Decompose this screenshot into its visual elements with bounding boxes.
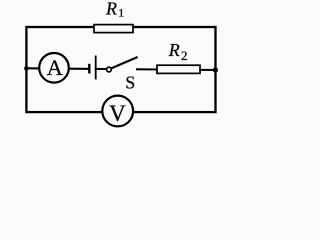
svg-text:2: 2 (181, 48, 188, 63)
svg-text:R: R (105, 0, 117, 19)
svg-text:S: S (125, 73, 135, 93)
svg-text:A: A (47, 55, 64, 80)
svg-text:V: V (109, 101, 126, 126)
svg-text:1: 1 (118, 6, 124, 20)
svg-text:R: R (168, 40, 180, 60)
